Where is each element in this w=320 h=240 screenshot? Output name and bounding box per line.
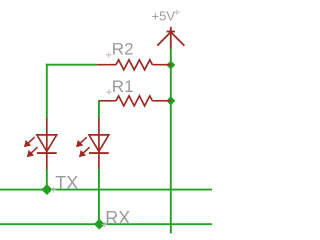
junction on RX net xyxy=(95,220,104,229)
wire: LED1 cathode down to TX net xyxy=(46,169,48,191)
junction on TX net xyxy=(43,185,52,194)
svg-text:RX: RX xyxy=(105,208,130,228)
LED D2 xyxy=(77,118,109,169)
label TX xyxy=(51,173,79,193)
wire: LED2 cathode down to RX net xyxy=(98,169,100,225)
junction at R2 right pin xyxy=(167,61,174,68)
wire: TX horizontal net xyxy=(0,189,212,191)
svg-text:TX: TX xyxy=(55,173,78,193)
wire: net from R1 left pin down to LED2 anode xyxy=(98,100,100,118)
wire: net from R2 left pin, horizontal segment xyxy=(46,64,97,66)
junction at R1 right pin xyxy=(167,97,174,104)
svg-text:R2: R2 xyxy=(112,40,134,59)
label +5V xyxy=(152,9,180,24)
label RX xyxy=(102,208,131,228)
supply symbol +5V arrow xyxy=(157,27,184,49)
wire: RX horizontal net xyxy=(0,223,212,225)
svg-text:R1: R1 xyxy=(112,77,134,96)
svg-text:+5V: +5V xyxy=(152,9,176,24)
resistor R1 xyxy=(99,96,171,106)
LED D1 xyxy=(25,118,57,169)
label R2 xyxy=(106,40,134,59)
resistor R2 xyxy=(97,60,171,70)
wire: net from R2 down to LED1 anode xyxy=(46,64,48,118)
wire: +5V supply net vertical xyxy=(170,48,172,234)
label R1 xyxy=(106,77,133,96)
